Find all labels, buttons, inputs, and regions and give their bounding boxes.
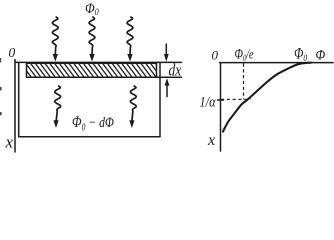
absorbing layer slab (hatched) bbox=[27, 63, 157, 77]
x axis line (left diagram, downward) bbox=[14, 60, 16, 153]
label Phi0 (asymptote) bbox=[294, 45, 308, 63]
left edge scan mark 2 bbox=[0, 87, 2, 90]
right graph: x axis (vertical downward) bbox=[220, 63, 222, 151]
label 1/alpha bbox=[200, 94, 217, 110]
wavy arrow 3 (incident) bbox=[127, 17, 133, 62]
surface line left stub bbox=[16, 61, 20, 63]
svg-text:0: 0 bbox=[9, 45, 16, 60]
svg-text:x: x bbox=[5, 133, 14, 152]
dashed line horizontal (1/alpha) bbox=[221, 98, 251, 100]
label Phi0/e bbox=[235, 45, 254, 63]
wavy arrow 4 (transmitted) bbox=[53, 86, 60, 128]
svg-text:dx: dx bbox=[169, 62, 182, 79]
svg-text:0: 0 bbox=[212, 48, 219, 63]
dx extension line top bbox=[160, 61, 182, 63]
left edge scan mark 1 bbox=[0, 58, 1, 63]
medium box bbox=[19, 62, 160, 136]
wavy arrow 1 (incident) bbox=[52, 17, 58, 62]
wavy arrow 5 (transmitted) bbox=[129, 86, 136, 128]
dx arrow up bbox=[165, 78, 170, 96]
label Phi0 minus dPhi bbox=[72, 114, 114, 133]
svg-text:1/α: 1/α bbox=[200, 94, 217, 110]
dx arrow down bbox=[164, 44, 169, 62]
svg-text:x: x bbox=[207, 132, 215, 149]
tick 1/alpha on x axis bbox=[218, 99, 224, 101]
svg-text:Φ0 − dΦ: Φ0 − dΦ bbox=[72, 114, 114, 133]
dx extension line bottom bbox=[157, 76, 182, 78]
dashed line vertical (Phi0/e) bbox=[243, 64, 245, 100]
label Phi (axis) bbox=[316, 48, 326, 64]
svg-text:Φ: Φ bbox=[316, 48, 326, 64]
label dx bbox=[169, 62, 182, 79]
right graph: Phi axis (horizontal) bbox=[220, 62, 334, 64]
exponential decay curve bbox=[223, 63, 311, 132]
left edge scan mark 3 bbox=[0, 112, 2, 115]
label Phi0 incident flux bbox=[85, 0, 99, 17]
wavy arrow 2 (incident) bbox=[89, 17, 95, 62]
